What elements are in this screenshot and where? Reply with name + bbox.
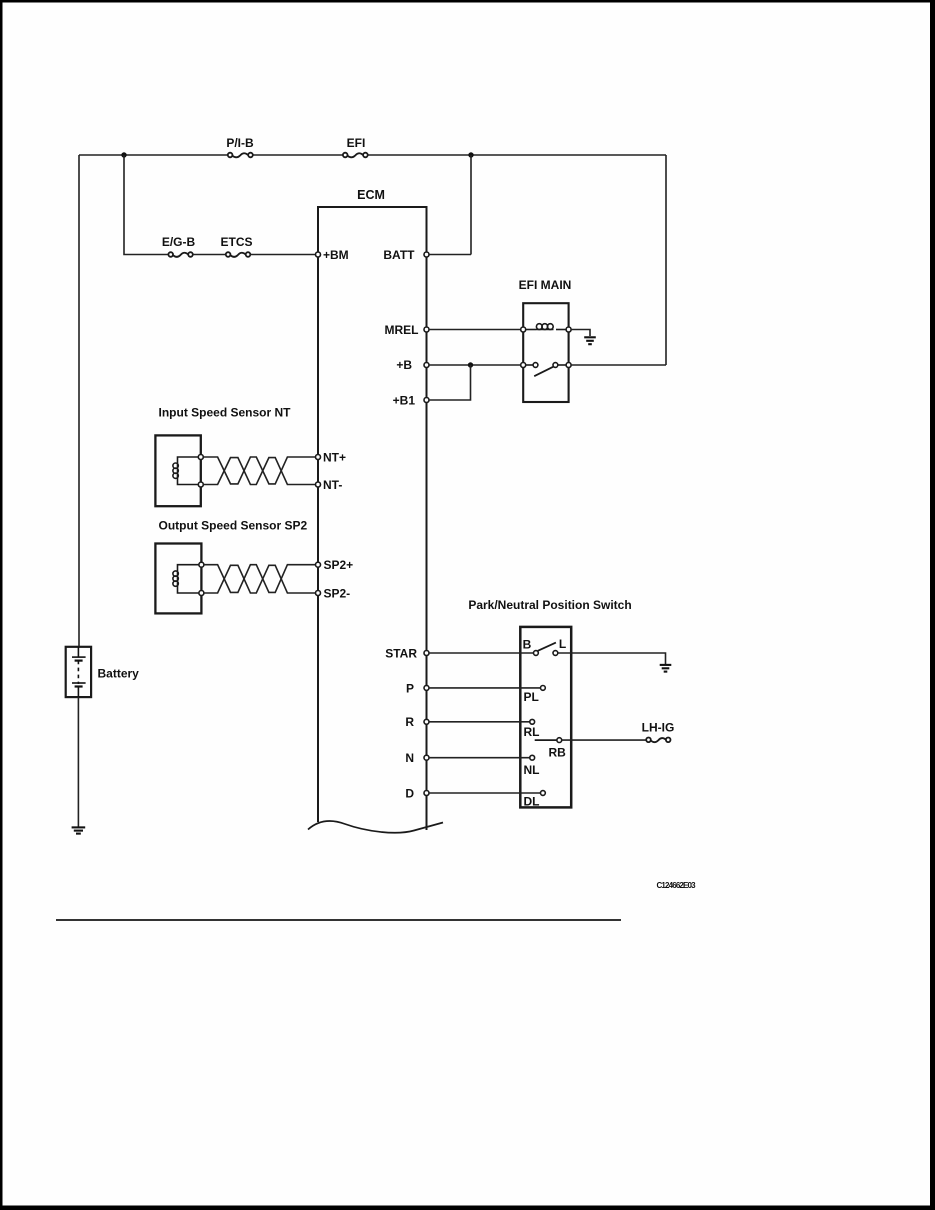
wire: contact L to ground (558, 653, 666, 664)
pin MREL (424, 327, 429, 332)
wire: R to contact RL (429, 721, 530, 723)
switch contact RB with wire to LH-IG (535, 739, 557, 741)
pin +B1 (424, 398, 429, 403)
svg-text:STAR: STAR (385, 647, 417, 661)
switch contact PL (541, 686, 546, 691)
scan border right (930, 0, 935, 1210)
relay coil (526, 324, 567, 330)
fuse P/I-B (228, 153, 253, 158)
divider rule (56, 919, 621, 921)
wire: top bus from EFI fuse to right corner (368, 154, 666, 156)
ground (switch) (660, 665, 672, 672)
wire: BATT to vertical x471 (429, 254, 471, 256)
wire: battery to ground (77, 697, 79, 827)
svg-text:NL: NL (524, 763, 540, 777)
node: junction dot at x124 on top bus (121, 152, 126, 157)
svg-text:RB: RB (549, 746, 567, 760)
scan border left (0, 0, 3, 1210)
svg-text:LH-IG: LH-IG (642, 721, 675, 735)
pin D (424, 791, 429, 796)
twisted pair NT wire B (203, 458, 315, 485)
svg-text:RL: RL (524, 725, 540, 739)
relay switch contacts (521, 363, 526, 368)
wire: vertical from junction x471 down to BATT wire (470, 155, 472, 255)
switch contact NL (530, 755, 535, 760)
svg-text:+B1: +B1 (393, 394, 416, 408)
relay coil terminal circles (521, 327, 526, 332)
switch contact RL (530, 719, 535, 724)
svg-text:B: B (523, 638, 532, 652)
svg-text:+B: +B (396, 358, 412, 372)
svg-text:DL: DL (524, 795, 540, 809)
svg-text:MREL: MREL (385, 323, 419, 337)
pin SP2- (316, 591, 321, 596)
sensor NT terminal circles (198, 455, 203, 460)
sensor SP2 terminal circles (199, 562, 204, 567)
svg-text:EFI MAIN: EFI MAIN (519, 278, 572, 292)
pin NT- (316, 482, 321, 487)
svg-text:D: D (405, 786, 414, 800)
scan border top (0, 0, 935, 3)
pin SP2+ (316, 562, 321, 567)
svg-text:R: R (405, 715, 414, 729)
fuse EFI (343, 153, 368, 158)
scan border bottom (0, 1206, 935, 1210)
wire: P to contact PL (429, 687, 540, 689)
wire: MREL to relay coil (429, 329, 521, 331)
svg-text:P/I-B: P/I-B (226, 136, 254, 150)
relay switch blade (534, 367, 553, 377)
ground (relay coil) (584, 337, 596, 344)
pin +B (424, 363, 429, 368)
svg-text:SP2+: SP2+ (324, 558, 354, 572)
svg-text:C124662E03: C124662E03 (657, 881, 697, 890)
wire: left vertical down to battery (78, 155, 80, 647)
sensor SP2 box (155, 544, 201, 614)
wire: RB contact to LH-IG fuse (562, 739, 646, 741)
relay EFI MAIN box (523, 303, 568, 402)
switch contact B (534, 651, 539, 656)
wire: top bus left segment to fuse P/I-B (79, 154, 228, 156)
node: junction dot on +B wire (468, 362, 473, 367)
battery cell symbol (72, 647, 86, 697)
svg-text:N: N (405, 751, 414, 765)
svg-text:P: P (406, 681, 414, 695)
svg-text:Battery: Battery (98, 667, 140, 681)
ECM bottom torn wavy line (308, 821, 443, 833)
wire: +B to relay switch (429, 364, 521, 366)
pin STAR (424, 651, 429, 656)
twisted pair SP2 wire B (204, 565, 316, 593)
sensor NT pickup coil (173, 457, 198, 485)
fuse LH-IG (646, 738, 670, 743)
svg-text:ETCS: ETCS (220, 235, 252, 249)
svg-text:Output Speed Sensor SP2: Output Speed Sensor SP2 (159, 519, 308, 533)
svg-text:Input Speed Sensor NT: Input Speed Sensor NT (159, 406, 292, 420)
battery box (66, 647, 91, 697)
sensor SP2 pickup coil (173, 565, 199, 593)
svg-text:NT-: NT- (323, 478, 342, 492)
ECM box outline (open bottom) (318, 207, 427, 830)
twisted pair SP2 wire A (204, 565, 316, 593)
wire: N to contact NL (429, 757, 530, 759)
svg-text:E/G-B: E/G-B (162, 235, 196, 249)
pin BATT (424, 252, 429, 257)
wire: right vertical from top bus down to EFI MAIN +B row (665, 155, 667, 365)
svg-text:+BM: +BM (323, 248, 349, 262)
node: junction dot at x471 on top bus (468, 152, 473, 157)
twisted pair NT wire A (203, 457, 315, 484)
switch contact L (553, 651, 558, 656)
fuse E/G-B (168, 252, 192, 257)
wire: branch from junction down and right to fuse E/G-B row (124, 155, 168, 255)
wire: D to contact DL (429, 792, 540, 794)
pin R (424, 719, 429, 724)
pin N (424, 755, 429, 760)
pin NT+ (316, 455, 321, 460)
svg-text:EFI: EFI (347, 136, 366, 150)
sensor NT box (155, 435, 200, 506)
svg-text:Park/Neutral Position Switch: Park/Neutral Position Switch (468, 598, 631, 612)
svg-text:BATT: BATT (383, 248, 415, 262)
wire: relay switch to right vertical (571, 364, 666, 366)
svg-text:ECM: ECM (357, 188, 385, 202)
switch contact DL (541, 791, 546, 796)
wire: from ETCS fuse to pin +BM (250, 254, 315, 256)
wire: between E/G-B and ETCS fuses (193, 254, 226, 256)
wire: STAR to switch contact B (429, 652, 534, 654)
switch blade B-L (538, 643, 556, 651)
svg-text:NT+: NT+ (323, 451, 346, 465)
svg-text:L: L (559, 637, 566, 651)
svg-text:SP2-: SP2- (324, 587, 351, 601)
park/neutral switch box (520, 627, 571, 808)
ground (battery) (72, 827, 86, 833)
fuse ETCS (226, 252, 251, 257)
svg-text:PL: PL (524, 690, 539, 704)
wire: +B1 branch up to +B junction (429, 365, 471, 400)
pin +BM (316, 252, 321, 257)
wire: top bus between fuses (253, 154, 343, 156)
wire: relay coil to ground (571, 330, 590, 337)
pin P (424, 685, 429, 690)
